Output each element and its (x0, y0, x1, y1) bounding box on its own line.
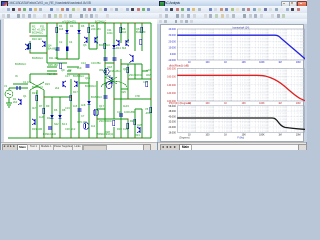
wire column x70 lower (70, 79, 72, 138)
wire column x104 lower (104, 63, 106, 138)
red junction dots (29, 22, 151, 138)
svg-text:BC846LC: BC846LC (73, 74, 84, 78)
wire column x96 (96, 23, 98, 49)
transistor Q16 (83, 123, 89, 130)
transistor Q22 circle (106, 81, 112, 88)
svg-text:220-28C: 220-28C (91, 27, 101, 31)
wire column x78 lower (78, 74, 80, 138)
phase curve (black) (177, 118, 305, 129)
svg-text:C30: C30 (65, 127, 70, 131)
svg-text:BC846LC: BC846LC (85, 84, 96, 88)
svg-text:120.000: 120.000 (167, 92, 176, 95)
wire column x29 mid (29, 74, 31, 82)
wire column x141 mid (141, 64, 143, 79)
svg-text:8k6: 8k6 (122, 46, 127, 50)
plot panel (157, 24, 307, 143)
svg-text:30k: 30k (99, 68, 104, 72)
svg-text:100: 100 (205, 61, 210, 64)
svg-text:R27: R27 (130, 119, 135, 123)
svg-text:1M: 1M (278, 102, 281, 105)
resistor R28 (134, 119, 136, 125)
transistor Q1 input (18, 99, 21, 105)
resistor R4 (56, 27, 58, 33)
svg-text:Q26: Q26 (137, 123, 142, 127)
svg-text:180.000: 180.000 (167, 68, 176, 71)
svg-text:C16 88n: C16 88n (91, 61, 101, 65)
transistor Q8 (126, 40, 129, 46)
svg-text:Q18: Q18 (107, 65, 112, 69)
svg-text:R23: R23 (45, 82, 50, 86)
svg-text:Q13: Q13 (123, 67, 128, 71)
svg-text:1k45: 1k45 (39, 115, 45, 119)
svg-text:1k0: 1k0 (122, 30, 127, 34)
svg-text:C19: C19 (65, 106, 70, 110)
schematic canvas (1, 19, 157, 142)
svg-text:100K: 100K (259, 61, 265, 64)
svg-text:R9: R9 (46, 104, 50, 108)
svg-text:BA-868: BA-868 (48, 47, 57, 51)
capacitor C14 (86, 65, 90, 67)
svg-text:R30: R30 (117, 127, 122, 131)
grid: x from 16.3 to 143.3 ; decades 18.14px (160, 24, 162, 26)
diode D3 (113, 45, 116, 48)
wire row y90 lower right (135, 108, 142, 110)
wire column x127 lower (127, 119, 129, 138)
svg-text:40.000: 40.000 (168, 116, 176, 119)
svg-text:D12: D12 (47, 116, 52, 120)
resistor R20 (146, 81, 148, 87)
svg-text:R22 330: R22 330 (47, 72, 57, 76)
svg-text:C17: C17 (65, 74, 70, 78)
svg-text:2n2: 2n2 (71, 127, 76, 131)
svg-text:16.000: 16.000 (168, 132, 176, 135)
wire column x134 (134, 23, 136, 51)
svg-text:C2: C2 (59, 40, 63, 44)
wire row y30 mirror (89, 48, 97, 50)
svg-text:BUL380: BUL380 (136, 30, 146, 34)
voltage source V1 (5, 90, 13, 98)
resistor R13 (104, 43, 106, 49)
svg-text:IN: IN (15, 74, 18, 78)
window button maximize (289, 1, 297, 8)
wire column x43 lower (43, 90, 45, 138)
capacitor C7 (78, 109, 82, 111)
svg-text:BC546LC: BC546LC (32, 31, 43, 35)
wire row y48 (47, 66, 79, 68)
svg-text:199-28LC: 199-28LC (110, 69, 122, 73)
capacitor C2 (56, 48, 60, 50)
transistor Q2 (25, 44, 28, 50)
transistor Q12 (74, 81, 77, 87)
wire row y78 (44, 96, 71, 98)
svg-text:R14: R14 (116, 46, 121, 50)
diode D2 (78, 30, 81, 33)
output dB curve (red) (177, 76, 305, 102)
wire column x104 (104, 23, 106, 63)
transistor Q13 (63, 81, 66, 87)
wire row y80 feedback (114, 98, 151, 100)
resistor R27 (127, 123, 129, 129)
svg-text:C14: C14 (81, 61, 86, 65)
wire column x120 (120, 23, 122, 43)
svg-text:100n: 100n (107, 31, 113, 35)
wire row y17 (30, 35, 47, 37)
svg-text:40.000: 40.000 (168, 28, 176, 31)
resistor R12 (141, 27, 143, 33)
diode D8 (88, 101, 91, 104)
transistor Q6 (84, 37, 87, 43)
wire crossing pair 2 (105, 77, 117, 84)
green reference and value labels (4, 19, 151, 137)
transistor Q11 (93, 109, 99, 116)
svg-text:100: 100 (205, 134, 210, 137)
resistor R36 (140, 39, 142, 45)
svg-text:48.000: 48.000 (168, 110, 176, 113)
svg-text:R31: R31 (135, 133, 140, 137)
svg-text:10M: 10M (296, 102, 301, 105)
svg-text:84.3: 84.3 (62, 122, 68, 126)
svg-text:1M: 1M (278, 61, 281, 64)
resistor R2 (29, 43, 31, 49)
capacitor C3 polarized (66, 47, 68, 52)
svg-text:Q14: Q14 (85, 76, 90, 80)
svg-text:32.000: 32.000 (168, 121, 176, 124)
svg-text:1000-880: 1000-880 (124, 110, 136, 114)
capacitor C6 (104, 58, 108, 60)
svg-text:1K: 1K (224, 134, 227, 137)
wire column x59 lower (59, 97, 61, 138)
wire column x127 (127, 23, 129, 43)
svg-text:+(V)50=47V: +(V)50=47V (62, 19, 76, 23)
diode D7 (59, 115, 62, 118)
svg-text:D6: D6 (54, 108, 58, 112)
transistor Q18 (104, 68, 109, 74)
wire row y40 (57, 58, 79, 60)
wire column x88 (88, 23, 90, 49)
wire column x29 lower (29, 90, 31, 138)
wire row y44 (47, 62, 114, 64)
svg-text:0.000: 0.000 (170, 53, 177, 56)
svg-text:V5: V5 (145, 107, 149, 111)
svg-text:47R: 47R (135, 94, 140, 98)
svg-text:BC846LC: BC846LC (32, 85, 43, 89)
svg-text:C4: C4 (69, 40, 73, 44)
svg-text:BD910-910(4): BD910-910(4) (97, 132, 113, 136)
svg-text:2SC3000C: 2SC3000C (129, 73, 142, 77)
svg-text:R18: R18 (106, 74, 111, 78)
svg-text:R25: R25 (121, 90, 126, 94)
svg-text:BC846LC: BC846LC (99, 43, 110, 47)
svg-text:1K: 1K (224, 102, 227, 105)
wire column x96 lower (96, 81, 98, 138)
wire column x141 (141, 23, 143, 51)
svg-text:24.000: 24.000 (168, 126, 176, 129)
wire arc loop (101, 81, 127, 87)
svg-text:1n0: 1n0 (77, 66, 82, 70)
wire bottom -V rail (8, 137, 151, 139)
svg-text:C7: C7 (81, 114, 85, 118)
svg-text:R21: R21 (32, 91, 37, 95)
svg-text:30.000: 30.000 (168, 35, 176, 38)
resistor R9 (43, 108, 45, 114)
svg-text:Sb2: Sb2 (54, 122, 59, 126)
transistor Q5 (95, 37, 98, 43)
wire top +V rail (30, 22, 151, 24)
svg-text:(Degrees): (Degrees) (179, 137, 189, 140)
wire row y100 (97, 118, 128, 120)
ground GND1 (6, 103, 12, 107)
resistor R19 (127, 67, 129, 73)
svg-text:BC846LC: BC846LC (32, 56, 43, 60)
wire column x134 mid (134, 64, 136, 79)
svg-text:10K: 10K (241, 102, 246, 105)
svg-text:Q4: Q4 (68, 68, 72, 72)
transistor Q14 (109, 77, 113, 85)
svg-text:0.22: 0.22 (123, 127, 129, 131)
transistor Q9 output upper (130, 55, 134, 63)
svg-text:BC546LC: BC546LC (95, 19, 106, 23)
svg-text:1M: 1M (278, 134, 281, 137)
svg-text:10.000: 10.000 (168, 47, 176, 50)
transistor Q10 (32, 119, 35, 125)
wire column x66 (66, 23, 68, 59)
svg-text:R11 4k5: R11 4k5 (49, 56, 59, 60)
resistor R7 (36, 95, 38, 101)
wire column x120 lower (120, 59, 122, 138)
svg-text:1k2: 1k2 (91, 124, 96, 128)
svg-text:R35 150: R35 150 (48, 63, 58, 67)
svg-text:R29 100: R29 100 (77, 120, 87, 124)
diode D6 (51, 115, 54, 118)
resistor R35 (60, 63, 62, 69)
svg-text:1K: 1K (224, 61, 227, 64)
svg-text:0u33: 0u33 (123, 104, 129, 108)
wire column x113 (113, 23, 115, 63)
svg-text:1k6: 1k6 (59, 27, 64, 31)
wire right rail (150, 23, 152, 138)
wire column x51 lower (51, 97, 53, 138)
transistor Q3 (42, 41, 45, 47)
wire column x141 lower (141, 109, 143, 138)
capacitor C1 (17, 86, 20, 90)
svg-text:D4: D4 (70, 24, 74, 28)
wire row y52 segs (47, 71, 128, 109)
window button close (297, 1, 307, 8)
wire column x36 lower (36, 90, 38, 138)
bottom tab bar (1, 142, 157, 150)
svg-text:Q6: Q6 (83, 43, 87, 47)
svg-text:10M: 10M (296, 134, 301, 137)
svg-text:2SC3000C: 2SC3000C (99, 119, 112, 123)
svg-text:100K: 100K (259, 102, 265, 105)
wire input net from V1 (9, 84, 28, 103)
transistor Q7 (116, 40, 119, 46)
wire row y34 (30, 52, 47, 54)
svg-text:160.000: 160.000 (167, 76, 176, 79)
svg-text:C1 10u: C1 10u (23, 80, 32, 84)
svg-text:V1: V1 (4, 84, 8, 88)
wire stub output (142, 70, 148, 72)
svg-text:Q1: Q1 (23, 94, 27, 98)
wire column x134 lower (134, 109, 136, 138)
svg-text:+4V: +4V (146, 68, 151, 72)
svg-text:-10.000: -10.000 (167, 59, 176, 62)
capacitor C5 (104, 96, 108, 98)
window button minimize (281, 1, 291, 8)
wire column x46 (46, 23, 48, 63)
resistor R5 (88, 27, 90, 33)
svg-text:R7: R7 (39, 104, 43, 108)
svg-text:1k5: 1k5 (73, 104, 78, 108)
wire column x113 lower (113, 63, 115, 138)
wire column x88 lower (88, 74, 90, 138)
wire row y60 output (128, 78, 151, 80)
svg-text:Q17: Q17 (99, 104, 104, 108)
svg-text:140.000: 140.000 (167, 84, 176, 87)
diode D1 (66, 30, 69, 33)
svg-text:20.000: 20.000 (168, 41, 176, 44)
svg-text:4k7: 4k7 (32, 106, 37, 110)
svg-text:2k2: 2k2 (55, 86, 60, 90)
svg-text:R17: R17 (73, 90, 78, 94)
capacitor C10 (48, 127, 52, 129)
svg-text:D6: D6 (81, 24, 85, 28)
wire column x78 (78, 23, 80, 59)
svg-text:R33 10R: R33 10R (32, 127, 42, 131)
svg-text:4n8: 4n8 (81, 103, 86, 107)
resistor R8 (120, 27, 122, 33)
capacitor C8 (113, 58, 117, 60)
resistor R24 (113, 120, 115, 126)
svg-text:2k0: 2k0 (13, 100, 18, 104)
svg-text:46V: 46V (146, 73, 151, 77)
svg-text:BD910-910: BD910-910 (43, 132, 57, 136)
svg-text:R16 1k0: R16 1k0 (32, 37, 42, 41)
svg-text:10K: 10K (241, 61, 246, 64)
wire row y45 output (121, 63, 142, 65)
svg-text:10: 10 (188, 134, 191, 137)
svg-text:56.000: 56.000 (168, 105, 176, 108)
svg-text:100: 100 (205, 102, 210, 105)
capacitor C9 (119, 114, 123, 116)
wire column x56 (56, 23, 58, 59)
svg-text:BC846LC: BC846LC (91, 95, 102, 99)
svg-text:100K: 100K (259, 134, 265, 137)
resistor R26 (150, 107, 152, 113)
resistor R17 (70, 95, 72, 101)
svg-text:F (Hz): F (Hz) (237, 137, 244, 140)
svg-text:C20: C20 (143, 80, 148, 84)
bottom bar (158, 142, 306, 150)
svg-text:Q9: Q9 (61, 68, 65, 72)
svg-text:10M: 10M (296, 61, 301, 64)
svg-text:C24: C24 (117, 110, 122, 114)
svg-text:-46V: -46V (145, 111, 151, 115)
wire crossing pair (30, 82, 44, 90)
wire column x127 mid (127, 64, 129, 99)
wire column x29 upper (29, 23, 31, 53)
wire row y55 (30, 73, 89, 75)
gain magnitude curve (blue) (177, 36, 306, 60)
transistor Q15 (137, 127, 140, 133)
svg-text:BC846LC: BC846LC (15, 62, 26, 66)
